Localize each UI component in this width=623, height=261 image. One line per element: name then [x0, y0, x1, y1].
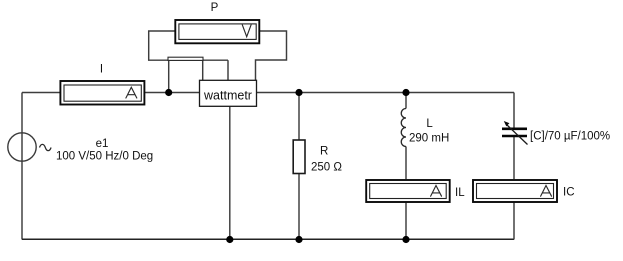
capacitor C bottom plate: [502, 135, 527, 138]
wire: voltmeter P left lead down to bus: [149, 31, 228, 60]
wire: right vertical capacitor to ammeter IC: [513, 137, 515, 179]
svg-text:[C]/70 µF/100%: [C]/70 µF/100%: [530, 131, 610, 143]
svg-text:IC: IC: [563, 187, 575, 199]
capacitor C top plate: [502, 128, 527, 131]
junction: bus / voltmeter tap: [165, 89, 172, 96]
svg-text:R: R: [320, 146, 328, 158]
wire: voltmeter P right lead to wattmeter top pin 3: [256, 31, 287, 80]
wire: resistor branch top: [298, 93, 300, 141]
AC source e1 circle: [8, 133, 36, 161]
wire: right vertical below ammeter IC: [513, 203, 515, 240]
svg-text:L: L: [426, 118, 433, 130]
AC source sine mark: [40, 144, 52, 150]
wire: below ammeter IL: [405, 203, 407, 240]
svg-text:100 V/50 Hz/0 Deg: 100 V/50 Hz/0 Deg: [56, 151, 153, 163]
capacitor variable arrow: [507, 125, 528, 145]
wire: inductor to ammeter IL: [405, 147, 407, 180]
wire: wattmeter bottom pin to bottom bus: [229, 106, 231, 239]
voltmeter P: [175, 20, 259, 43]
junction: bus / resistor: [295, 89, 302, 96]
junction: bottom / resistor: [295, 236, 302, 243]
svg-text:250 Ω: 250 Ω: [311, 162, 342, 174]
svg-text:P: P: [211, 2, 219, 14]
wire: top bus between ammeter I and wattmeter: [145, 92, 200, 94]
junction: bus / inductor: [402, 89, 409, 96]
wire: drop to junction on main bus: [168, 60, 170, 92]
ammeter IL: [366, 180, 450, 202]
wattmeter U1: [200, 80, 257, 106]
svg-text:I: I: [100, 63, 103, 75]
resistor R: [293, 140, 305, 174]
wire: resistor branch bottom: [298, 174, 300, 240]
svg-text:e1: e1: [96, 138, 109, 150]
wire: top bus from wattmeter to right corner: [257, 92, 515, 94]
svg-text:IL: IL: [455, 187, 465, 199]
ammeter I: [60, 81, 144, 105]
wire: bottom bus: [22, 238, 514, 240]
wire: inductor branch top: [405, 93, 407, 109]
svg-text:290 mH: 290 mH: [409, 133, 449, 145]
ammeter IC: [473, 180, 557, 202]
wire: drop to wattmeter top pin 1: [202, 60, 204, 80]
junction: bottom / inductor: [402, 236, 409, 243]
wire: drop to wattmeter top pin 2: [227, 60, 229, 80]
inductor L coil: [401, 109, 406, 147]
wire: left vertical through source: [21, 93, 23, 240]
svg-text:wattmetr: wattmetr: [203, 88, 252, 102]
wattmeter coupling bar: [168, 57, 203, 60]
junction: bottom / wattmeter: [226, 236, 233, 243]
wire: top bus left segment: [22, 92, 60, 94]
wire: right vertical above capacitor: [513, 93, 515, 128]
